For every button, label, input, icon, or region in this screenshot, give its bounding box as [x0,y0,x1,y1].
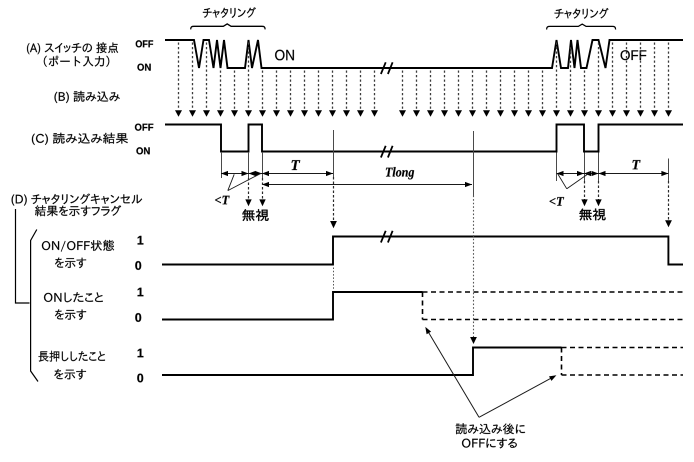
waveform C time-break slashes [381,146,393,158]
label flag3 0 [137,374,143,383]
span arrow Tlong [262,184,472,186]
label flag3 long press [39,351,106,362]
annotation line1 read-after [456,423,525,434]
label flag2 ON-shita-koto [44,292,103,302]
annotation arrow to flag2 OFF edge [426,329,479,418]
span arrow T (right) [599,173,669,175]
ignored-sample arrows left [248,178,250,200]
sampling arrowheads [175,110,182,117]
event arrow at x=333 (flag set) [333,177,335,221]
label (A) switch contact [27,42,118,54]
label flags showing result [35,205,121,216]
label flag1 ON/OFF state [42,240,114,252]
span arrow T (left) [262,173,333,175]
label OFF state on waveform A [621,50,647,60]
label (D) chattering cancel [12,194,143,206]
waveform flag3 long-press solid part [162,348,562,376]
label flag2 1 [138,288,144,297]
label flag3 1 [138,349,144,358]
label flag1 wo-shimesu [55,258,86,269]
label C ON [136,147,149,154]
ignored-sample arrows right [584,181,586,200]
chattering overbrace left [191,24,265,30]
label chattering right [555,8,609,19]
label flag3 wo-shimesu [54,369,86,380]
label T left [292,160,301,170]
D connector line [16,209,30,303]
label (port input) [44,56,110,67]
flag1 time-break slashes [381,231,393,243]
waveform A time-break slashes [381,62,393,74]
label T right [633,160,641,169]
sampling arrows row B [179,43,669,110]
span arrow <T first (right) [557,173,585,175]
measurement tick lines [222,130,669,196]
span arrow <T first (left) [221,173,249,175]
label ON state on waveform A [275,50,294,61]
D group bracket [31,230,38,382]
label Tlong [386,167,414,179]
span arrow <T second (left) [249,173,263,175]
label flag2 wo-shimesu [55,309,86,320]
label (C) read result [32,133,128,145]
label <T right [550,197,565,206]
pointer lines from <T left [228,173,261,190]
label <T left [215,196,230,205]
waveform flag1 ON/OFF state [162,237,683,265]
label ignore left [242,209,268,221]
chattering overbrace right [547,24,616,29]
label C OFF [135,124,153,131]
label A OFF [136,40,153,47]
span arrow <T second (right) [584,173,599,175]
waveform C: read result [165,125,683,152]
label A ON [137,64,150,71]
waveform A: switch contact with chattering [165,40,683,68]
event arrow at x=473 (long press read) [473,196,475,338]
event arrow at x=668 (flag clear) [668,181,670,221]
label ignore right [579,209,605,221]
waveform flag2 dashed part [423,292,684,320]
label flag2 0 [135,313,141,322]
label chattering left [203,7,256,18]
waveform flag2 ON-event solid part [162,292,423,320]
label flag1 0 [135,261,141,270]
waveform flag3 dashed part [562,348,684,376]
annotation arrow to flag3 OFF edge [479,376,555,417]
annotation line2 turn OFF [462,438,517,448]
label (B) read [55,91,120,103]
label flag1 1 [138,236,144,245]
pointer lines from <T right [558,172,591,189]
